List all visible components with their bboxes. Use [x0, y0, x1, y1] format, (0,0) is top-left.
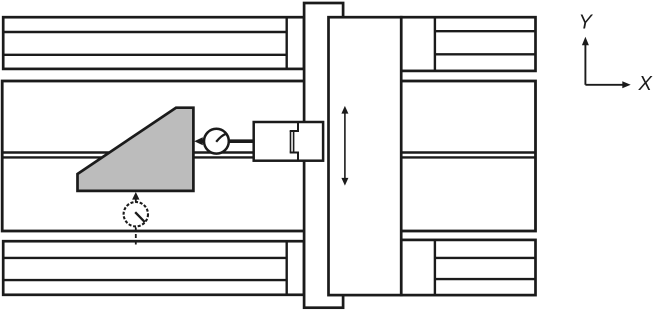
svg-text:X: X [638, 73, 653, 95]
svg-text:Y: Y [579, 12, 594, 34]
